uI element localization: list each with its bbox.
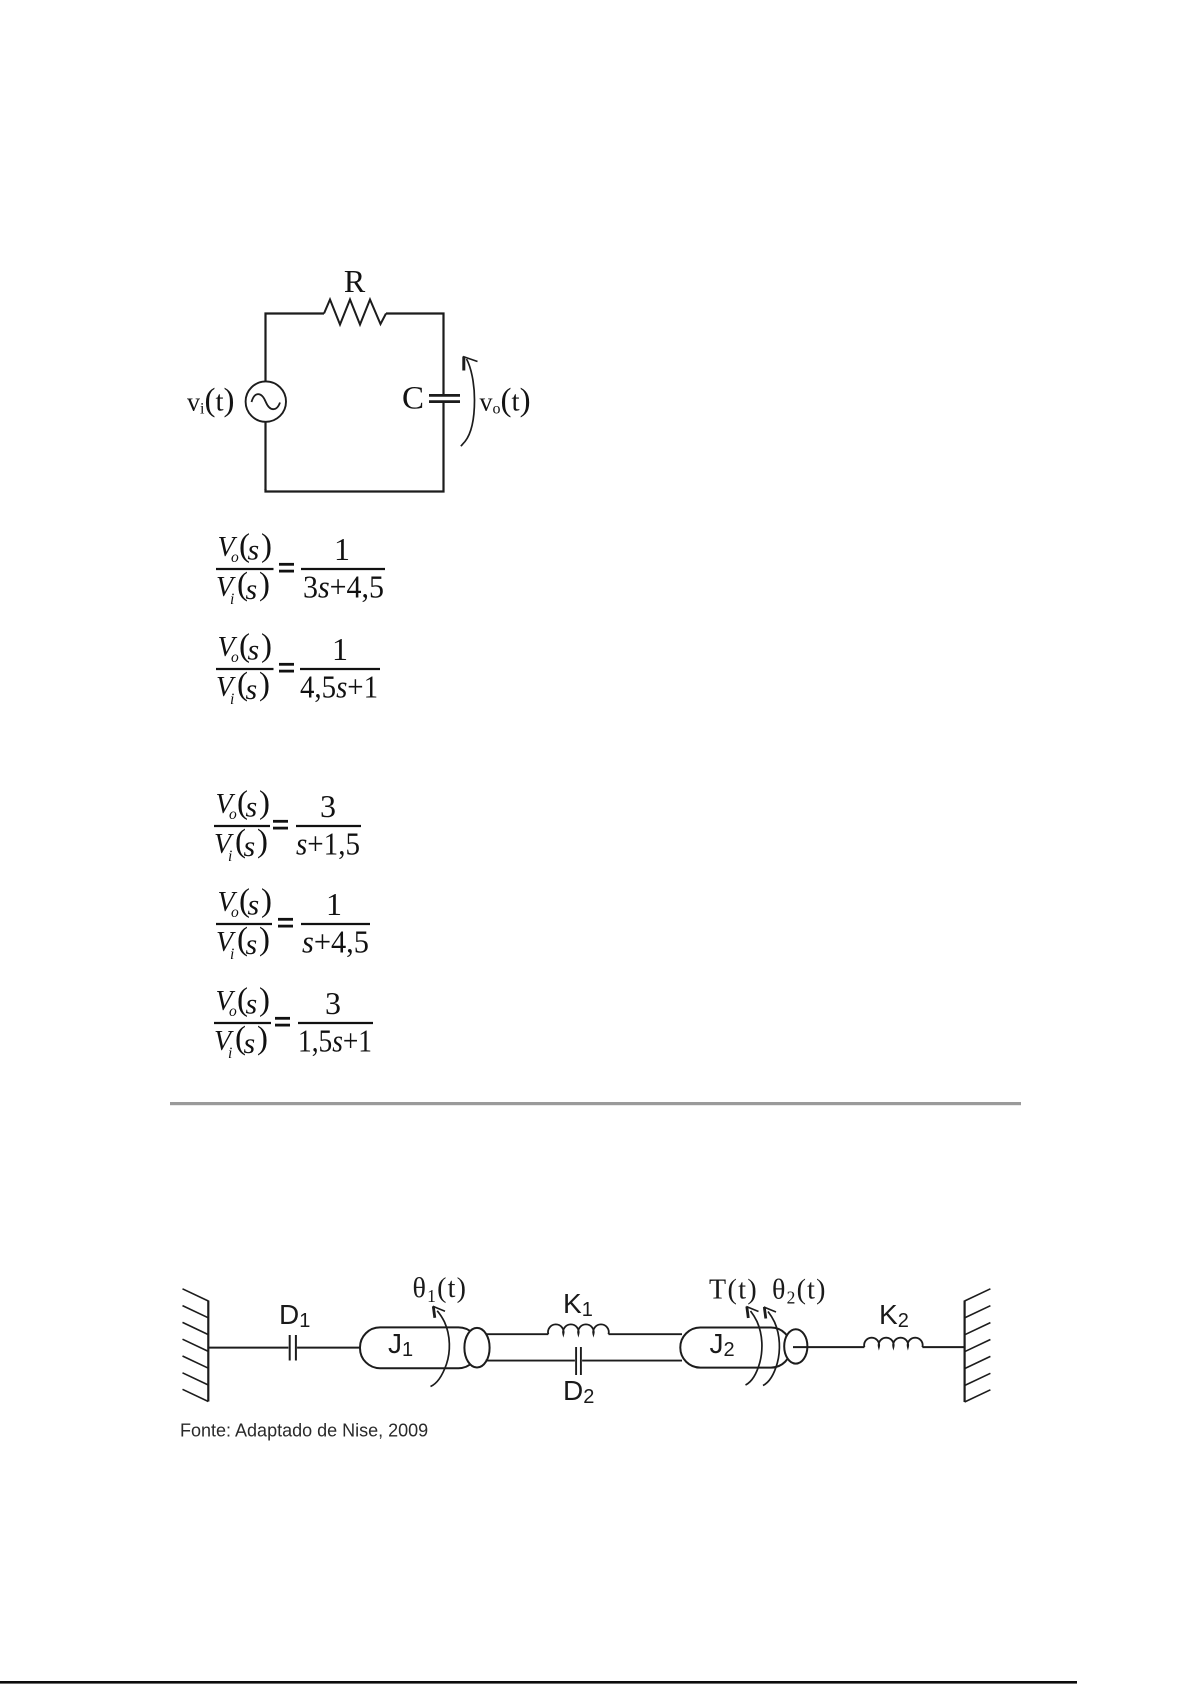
svg-text:): ) xyxy=(259,982,270,1018)
svg-text:s: s xyxy=(246,791,258,824)
right wall xyxy=(965,1289,991,1402)
svg-text:): ) xyxy=(259,785,270,821)
svg-text:θ1(t): θ1(t) xyxy=(413,1273,468,1306)
label θ2(t) xyxy=(772,1275,827,1308)
svg-text:): ) xyxy=(261,528,272,564)
svg-text:1: 1 xyxy=(332,631,348,667)
rotation arrow θ2 arc xyxy=(763,1307,779,1386)
svg-text:o: o xyxy=(231,904,239,921)
wire top-left segment xyxy=(266,314,325,491)
svg-text:s: s xyxy=(246,988,258,1021)
shaft wire D1 to J1 xyxy=(297,1347,361,1349)
svg-text:K1: K1 xyxy=(563,1288,593,1321)
svg-text:3: 3 xyxy=(320,788,336,824)
svg-text:): ) xyxy=(259,667,270,703)
wire right-bottom segment xyxy=(266,403,444,492)
svg-text:θ2(t): θ2(t) xyxy=(772,1275,827,1308)
svg-text:s: s xyxy=(248,634,260,667)
svg-text:D2: D2 xyxy=(563,1375,594,1408)
svg-text:i: i xyxy=(228,1045,232,1062)
resistor R xyxy=(324,300,386,325)
svg-text:vi(t): vi(t) xyxy=(187,383,235,419)
svg-text:T(t): T(t) xyxy=(709,1275,758,1306)
label vo(t) xyxy=(480,383,531,419)
svg-text:s: s xyxy=(246,928,258,961)
svg-text:s+1,5: s+1,5 xyxy=(296,826,360,862)
svg-text:D1: D1 xyxy=(279,1299,310,1332)
label R xyxy=(344,263,366,299)
label D2 xyxy=(563,1375,594,1408)
svg-text:1: 1 xyxy=(326,886,342,922)
svg-text:s: s xyxy=(248,889,260,922)
capacitor C plates xyxy=(429,395,460,401)
equation 2: Vo(s)/Vi(s) = 1/(4,5s+1) xyxy=(216,628,380,708)
svg-text:4,5s+1: 4,5s+1 xyxy=(300,669,378,705)
wire top-right and right down to capacitor xyxy=(386,314,444,395)
svg-text:s: s xyxy=(246,573,258,606)
equation 1: Vo(s)/Vi(s) = 1/(3s+4,5) xyxy=(216,528,385,608)
svg-text:i: i xyxy=(230,691,234,708)
svg-text:C: C xyxy=(402,381,424,417)
svg-text:1: 1 xyxy=(334,531,350,567)
svg-text:R: R xyxy=(344,263,366,299)
left wall xyxy=(183,1289,209,1402)
svg-text:i: i xyxy=(228,848,232,865)
equation 5: Vo(s)/Vi(s) = 3/(1,5s+1) xyxy=(214,982,373,1062)
svg-text:): ) xyxy=(261,628,272,664)
spring K2 xyxy=(864,1338,923,1347)
bottom page rule xyxy=(0,1681,1077,1684)
svg-text:i: i xyxy=(230,946,234,963)
shaft wire J2 to K2 xyxy=(793,1346,864,1348)
torque arrow T(t) arc xyxy=(746,1307,762,1386)
label K2 xyxy=(879,1299,909,1332)
caption Fonte xyxy=(180,1421,428,1441)
label vi(t) xyxy=(187,383,235,419)
damper D2 xyxy=(576,1347,581,1375)
svg-text:s+4,5: s+4,5 xyxy=(302,924,369,960)
inertia J2 cylinder xyxy=(680,1328,791,1368)
inertia J1 cylinder xyxy=(360,1327,479,1368)
svg-text:): ) xyxy=(257,824,268,860)
svg-text:s: s xyxy=(244,830,256,863)
equation 4: Vo(s)/Vi(s) = 1/(s+4,5) xyxy=(216,883,370,963)
label T(t) xyxy=(709,1275,758,1306)
svg-text:1,5s+1: 1,5s+1 xyxy=(298,1023,372,1059)
svg-text:3s+4,5: 3s+4,5 xyxy=(303,569,384,605)
svg-text:o: o xyxy=(231,649,239,666)
divider rule xyxy=(170,1102,1021,1105)
svg-text:o: o xyxy=(229,1003,237,1020)
svg-text:Fonte: Adaptado de Nise, 2009: Fonte: Adaptado de Nise, 2009 xyxy=(180,1421,428,1441)
end cap ellipse J2 xyxy=(784,1329,807,1363)
label D1 xyxy=(279,1299,310,1332)
svg-text:vo(t): vo(t) xyxy=(480,383,531,419)
label C xyxy=(402,381,424,417)
rotation arrow θ1 arc xyxy=(431,1306,450,1386)
svg-text:): ) xyxy=(257,1021,268,1057)
label K1 xyxy=(563,1288,593,1321)
end cap ellipse J1 xyxy=(464,1328,489,1368)
svg-text:K2: K2 xyxy=(879,1299,909,1332)
spring K1 xyxy=(548,1324,609,1334)
voltage source vi(t) xyxy=(246,381,286,421)
tube top wire J1 to K1 xyxy=(486,1333,549,1335)
shaft wire wall to D1 xyxy=(208,1347,288,1349)
svg-text:o: o xyxy=(231,549,239,566)
equation 3: Vo(s)/Vi(s) = 3/(s+1,5) xyxy=(214,785,361,865)
tube bottom wire D2 to J2 xyxy=(582,1360,682,1362)
svg-text:): ) xyxy=(261,883,272,919)
svg-text:s: s xyxy=(248,534,260,567)
damper D1 xyxy=(290,1335,296,1361)
svg-text:3: 3 xyxy=(325,985,341,1021)
svg-text:o: o xyxy=(229,806,237,823)
svg-text:s: s xyxy=(246,673,258,706)
svg-text:): ) xyxy=(259,922,270,958)
label θ1(t) xyxy=(413,1273,468,1306)
vo(t) arrow arc xyxy=(461,357,478,447)
svg-text:s: s xyxy=(244,1027,256,1060)
svg-text:): ) xyxy=(259,567,270,603)
label J1 xyxy=(388,1328,413,1361)
tube top wire K1 to J2 xyxy=(609,1333,683,1335)
svg-text:i: i xyxy=(230,591,234,608)
label J2 xyxy=(710,1328,735,1361)
shaft wire K2 to wall xyxy=(922,1346,965,1348)
tube bottom wire J1 to D2 xyxy=(486,1360,575,1362)
